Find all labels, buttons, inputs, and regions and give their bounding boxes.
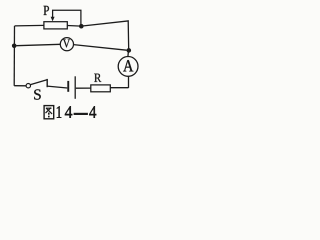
wire battery to resistor R <box>76 87 91 89</box>
wire node C to voltmeter <box>16 44 60 45</box>
switch S right terminal tick <box>46 79 48 87</box>
rheostat P slider arm <box>53 10 81 25</box>
switch S blade <box>31 80 48 85</box>
wire switch to battery <box>47 86 67 88</box>
wire node A to top-right corner and down to node B <box>81 21 128 51</box>
ammeter A <box>118 57 138 77</box>
caption: character 图 (drawn) <box>44 106 54 119</box>
resistor R body <box>91 85 111 92</box>
wire resistor to bottom-right corner <box>110 87 128 89</box>
ammeter letter A <box>123 60 133 71</box>
voltmeter V <box>60 38 73 51</box>
voltmeter letter V <box>63 39 70 47</box>
battery long plate <box>74 76 76 99</box>
caption dash <box>74 113 88 115</box>
rheostat P slider arrowhead <box>51 17 55 22</box>
node A junction dot <box>79 24 84 29</box>
wire top-left segment <box>15 24 44 27</box>
caption digit 4 <box>65 106 72 118</box>
label P <box>44 6 49 15</box>
wire left vertical <box>13 26 15 86</box>
node B junction dot <box>127 48 132 53</box>
battery short plate <box>67 81 69 92</box>
wire node B to ammeter top <box>127 50 130 56</box>
wire voltmeter to node B <box>74 45 127 51</box>
wire rheostat to node A <box>67 25 81 28</box>
caption digit 1 <box>57 106 61 118</box>
wire right vertical below ammeter <box>128 76 130 88</box>
wire bottom-left to switch <box>14 85 26 87</box>
caption digit 4 <box>89 106 96 118</box>
label S <box>34 89 40 99</box>
rheostat P body <box>44 22 67 29</box>
label R <box>94 74 101 82</box>
switch S pivot <box>26 84 30 88</box>
node C junction dot <box>12 44 17 49</box>
